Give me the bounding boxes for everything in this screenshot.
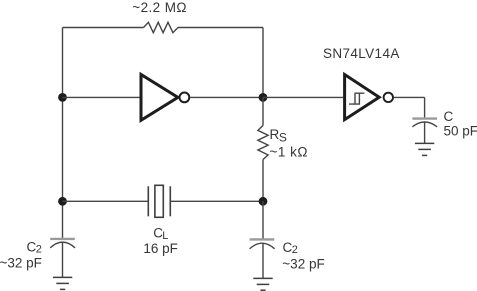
wire inverter U1 input xyxy=(63,96,140,98)
resistor R feedback ~2.2 MΩ xyxy=(132,0,187,33)
wire capacitor C2 mid to ground xyxy=(262,243,264,278)
wire left vertical xyxy=(62,28,64,239)
wire crystal to node D xyxy=(170,200,263,202)
wire capacitor C to ground xyxy=(424,122,426,143)
svg-text:~32 pF: ~32 pF xyxy=(282,257,324,272)
ground G2 xyxy=(253,278,272,290)
svg-text:~1 kΩ: ~1 kΩ xyxy=(270,145,309,160)
crystal Y1 CL 16 pF xyxy=(143,185,178,256)
ground G1 xyxy=(53,277,72,289)
capacitor C2 left ~32 pF xyxy=(0,239,75,270)
wire node B to Schmitt input xyxy=(263,96,343,98)
wire node D down to capacitor C2 mid xyxy=(262,201,264,239)
node D xyxy=(259,197,268,206)
ground G3 xyxy=(415,143,434,155)
wire inverter U1 output to node B xyxy=(190,96,263,98)
wire node C to crystal xyxy=(63,200,149,202)
svg-text:L: L xyxy=(162,230,168,242)
wire resistor RS to node D xyxy=(262,160,264,202)
node B xyxy=(259,93,268,102)
svg-text:2: 2 xyxy=(292,244,298,256)
svg-text:S: S xyxy=(279,131,287,145)
capacitor C2 mid ~32 pF xyxy=(250,239,325,271)
hysteresis symbol xyxy=(349,93,364,104)
svg-text:~2.2 MΩ: ~2.2 MΩ xyxy=(132,0,187,15)
Schmitt-trigger inverter U2 SN74LV14A xyxy=(323,46,400,120)
svg-text:50 pF: 50 pF xyxy=(444,124,477,139)
capacitor C 50 pF xyxy=(412,109,477,139)
node C crystal row left xyxy=(58,197,67,206)
svg-text:SN74LV14A: SN74LV14A xyxy=(323,46,400,61)
wire top left segment xyxy=(63,27,144,29)
wire right vertical from top to node B xyxy=(262,28,264,98)
resistor RS ~1 kΩ xyxy=(258,126,308,160)
svg-text:2: 2 xyxy=(36,243,42,255)
wire node B to resistor RS xyxy=(262,97,264,125)
inverter U1 (unbuffered) xyxy=(141,75,189,121)
node A input of inverter xyxy=(58,93,67,102)
svg-text:~32 pF: ~32 pF xyxy=(0,255,42,270)
wire capacitor C2 left to ground xyxy=(62,243,64,278)
wire top right segment xyxy=(178,27,263,29)
wire down to capacitor C xyxy=(424,97,426,118)
svg-text:16 pF: 16 pF xyxy=(143,241,178,256)
svg-text:C: C xyxy=(444,109,454,124)
wire Schmitt output xyxy=(394,96,425,98)
